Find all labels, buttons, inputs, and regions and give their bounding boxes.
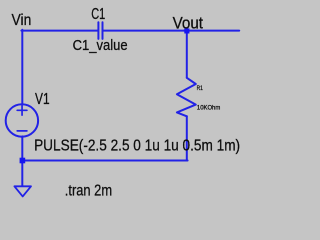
V1 minus sign <box>17 130 27 132</box>
wire left vertical (Vin corner down to V1 top pin) <box>21 30 23 105</box>
wire top-left horizontal (Vin to C1 left plate) <box>21 30 97 32</box>
svg-text:R1: R1 <box>197 85 203 92</box>
wire top-right horizontal (C1 right plate to right end) <box>103 30 239 32</box>
svg-text:Vin: Vin <box>12 12 32 29</box>
junction at Vout <box>184 28 189 33</box>
voltage source V1 circle <box>6 104 38 136</box>
wire left vertical (V1 bottom pin down to ground) <box>21 136 23 185</box>
junction at bottom-left <box>20 158 26 164</box>
svg-text:.tran 2m: .tran 2m <box>65 182 112 199</box>
wire right vertical upper (junction down to R1 top) <box>186 30 188 78</box>
svg-text:PULSE(-2.5 2.5 0 1u 1u 0.5m 1m: PULSE(-2.5 2.5 0 1u 1u 0.5m 1m) <box>34 137 240 154</box>
ground symbol <box>14 186 31 196</box>
svg-text:10KOhm: 10KOhm <box>197 105 221 112</box>
svg-text:C1_value: C1_value <box>73 37 128 54</box>
svg-text:C1: C1 <box>91 6 105 23</box>
V1 plus sign <box>17 106 27 131</box>
svg-text:Vout: Vout <box>173 14 204 32</box>
wire bottom horizontal <box>21 160 187 162</box>
svg-text:V1: V1 <box>35 91 50 108</box>
capacitor C1 plates <box>97 22 99 39</box>
resistor R1 zigzag <box>177 78 196 117</box>
wire right vertical lower (R1 bottom to bottom wire) <box>186 116 188 159</box>
